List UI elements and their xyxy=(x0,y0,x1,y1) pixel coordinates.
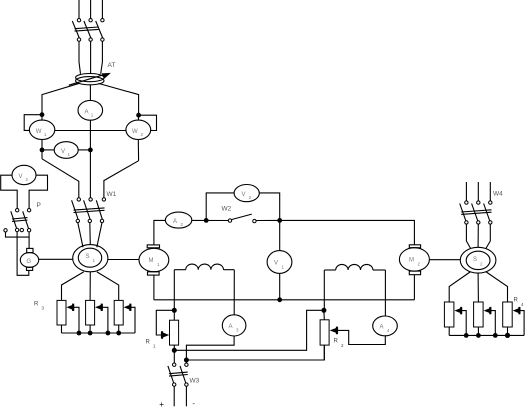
wire W1 to W2 horizontal xyxy=(55,130,126,132)
wire S1 to M1 shaft xyxy=(108,259,139,261)
wire M1 top to A2 xyxy=(154,220,166,245)
wire V3 branch left xyxy=(206,193,234,221)
svg-text:3: 3 xyxy=(249,195,252,200)
voltmeter V1 link xyxy=(267,220,292,299)
node W3 right xyxy=(184,358,189,363)
svg-text:R: R xyxy=(334,339,339,345)
node V1 on bus xyxy=(277,297,282,302)
rheostat R2 xyxy=(320,310,385,348)
svg-text:2: 2 xyxy=(341,343,344,348)
svg-text:S: S xyxy=(86,254,90,260)
inductor M2 field winding xyxy=(324,264,385,270)
wire W4 to S2 left xyxy=(466,224,470,249)
machine S2 slip-ring induction xyxy=(460,247,496,273)
svg-text:1: 1 xyxy=(44,132,47,137)
wire A3 bottom to W3 right xyxy=(186,336,234,360)
svg-text:W3: W3 xyxy=(190,378,200,385)
node R1 top xyxy=(172,308,177,313)
wire W3 left pole down xyxy=(173,386,175,406)
ammeter A4 xyxy=(373,316,398,336)
wire R1 node to R2 top xyxy=(174,310,321,350)
svg-text:1: 1 xyxy=(68,152,71,157)
svg-text:AT: AT xyxy=(108,62,116,69)
wire P right pole to G top xyxy=(28,232,30,249)
wire armature bus xyxy=(154,299,415,301)
wire W2 voltage bracket xyxy=(139,115,157,130)
wire M2 bottom to bus xyxy=(413,275,415,300)
wire V2 left to P left pole xyxy=(1,175,18,208)
wire W1 down xyxy=(41,140,43,159)
wire M2 to S2 shaft xyxy=(429,259,460,261)
voltmeter V2 xyxy=(12,165,36,184)
svg-text:3: 3 xyxy=(236,328,239,333)
wire switch W1 to S1 stator center xyxy=(89,223,92,245)
svg-text:P: P xyxy=(37,202,41,209)
rheostat R1 xyxy=(146,310,179,350)
wire supply stub C right xyxy=(489,182,491,201)
wire W4 to S2 center xyxy=(477,224,479,247)
switch W2 knife xyxy=(222,206,257,223)
switch W3 2-pole xyxy=(168,350,200,386)
wire S2 rotor center to R4 xyxy=(477,273,479,302)
wire field2 right to A4 xyxy=(384,270,386,316)
wire AT right tap xyxy=(99,83,139,113)
switch W1 3-pole xyxy=(72,191,117,223)
inductor M1 field winding xyxy=(174,264,234,270)
switch Q supply 3-pole xyxy=(72,19,104,42)
switch W4 3-pole xyxy=(460,191,503,225)
svg-text:W4: W4 xyxy=(493,191,503,198)
machine M2 DC xyxy=(399,245,429,275)
wire S2 rotor right to R4 xyxy=(486,272,507,302)
voltmeter V1 xyxy=(42,142,90,159)
wire W1 voltage bracket xyxy=(24,115,42,131)
wire W2 down xyxy=(137,140,139,161)
svg-text:V: V xyxy=(61,149,65,155)
wire phase A to autotransformer xyxy=(79,41,81,74)
svg-text:M: M xyxy=(409,258,414,264)
wire V3 branch right xyxy=(259,193,279,221)
node R2 top xyxy=(321,308,326,313)
svg-text:M: M xyxy=(149,258,154,264)
svg-text:1: 1 xyxy=(93,258,96,263)
wire supply phase C top xyxy=(101,0,103,19)
wire supply stub B right xyxy=(477,182,479,201)
switch P 2-pole xyxy=(11,202,41,232)
wire S2 rotor left to R4 xyxy=(449,272,470,302)
wire S1 rotor center to R3 xyxy=(89,272,91,301)
wire R2 bottom down xyxy=(323,345,325,360)
autotransformer AT xyxy=(69,62,116,85)
wire W2 to switch right pole xyxy=(104,161,139,198)
wire W2 switch to node xyxy=(256,219,280,221)
wire W4 to S2 right xyxy=(486,224,491,249)
wire field2 left to R2 top xyxy=(323,270,325,310)
ammeter A2 xyxy=(165,212,191,228)
svg-text:W: W xyxy=(36,129,42,135)
wire switch W1 to S1 stator right xyxy=(97,223,102,248)
svg-text:R: R xyxy=(34,302,39,308)
svg-text:V: V xyxy=(242,192,246,198)
svg-text:2: 2 xyxy=(480,262,483,267)
voltmeter V3 xyxy=(234,185,259,202)
svg-text:V: V xyxy=(19,174,23,180)
svg-text:V: V xyxy=(274,261,278,267)
rheostat R3 xyxy=(34,300,135,335)
wire field left to R1 node xyxy=(173,270,175,311)
wattmeter W2 xyxy=(126,115,151,139)
svg-text:A: A xyxy=(85,110,89,116)
svg-text:+: + xyxy=(159,400,164,409)
machine M1 DC xyxy=(139,245,169,275)
svg-text:2: 2 xyxy=(181,222,184,227)
wire W3 right node to R2 bottom xyxy=(186,345,324,360)
wire W1 to switch left pole xyxy=(42,159,79,198)
wire supply phase A top xyxy=(78,0,80,19)
wire phase B to autotransformer xyxy=(90,41,92,73)
svg-text:W1: W1 xyxy=(107,191,117,198)
wire S1 rotor right to R3 xyxy=(97,272,119,301)
svg-text:S: S xyxy=(473,257,477,263)
wire AT center tap xyxy=(89,85,91,101)
svg-text:A: A xyxy=(229,324,233,330)
wattmeter W1 xyxy=(29,115,54,140)
wire S1 rotor left to R3 xyxy=(62,272,84,301)
terminal stub left of P xyxy=(4,229,29,238)
svg-text:R: R xyxy=(514,298,519,304)
wire node to M2 top xyxy=(280,220,415,244)
wire A2 to W2 switch xyxy=(192,219,229,221)
svg-text:2: 2 xyxy=(26,177,29,182)
machine S1 slip-ring induction xyxy=(73,245,108,272)
svg-text:2: 2 xyxy=(418,262,421,267)
node V3 right xyxy=(277,218,282,223)
svg-text:G: G xyxy=(27,259,32,265)
svg-text:A: A xyxy=(380,325,384,331)
svg-text:3: 3 xyxy=(42,306,45,311)
wire G to S1 shaft xyxy=(39,258,73,260)
svg-text:W: W xyxy=(132,129,138,135)
ammeter A3 xyxy=(222,315,246,336)
node R1 bottom xyxy=(172,348,177,353)
wire P left pole to G bottom xyxy=(17,232,29,276)
wire M1 bottom to bus xyxy=(153,275,155,300)
svg-text:R: R xyxy=(146,340,151,346)
wire W3 right pole down xyxy=(185,386,187,406)
svg-text:1: 1 xyxy=(153,344,156,349)
wire supply phase B top xyxy=(90,0,92,19)
svg-text:1: 1 xyxy=(91,113,94,118)
node left wattmeter tap xyxy=(40,112,45,117)
svg-text:2: 2 xyxy=(141,132,144,137)
svg-text:1: 1 xyxy=(282,265,285,270)
wire supply stub A right xyxy=(465,182,467,201)
machine G exciter xyxy=(20,248,38,270)
wire A1 down center xyxy=(89,120,91,198)
svg-text:-: - xyxy=(193,401,196,408)
wire switch W1 to S1 stator left xyxy=(78,223,83,248)
ammeter A1 xyxy=(78,100,103,120)
wire V2 right to P right pole xyxy=(29,175,47,208)
wire field right to A3 xyxy=(233,270,235,315)
node V1 right xyxy=(88,148,93,153)
wire AT left tap xyxy=(42,83,79,113)
svg-text:4: 4 xyxy=(521,302,524,307)
svg-text:A: A xyxy=(173,219,177,225)
svg-text:1: 1 xyxy=(157,262,160,267)
svg-text:W2: W2 xyxy=(222,206,232,213)
node V1 left xyxy=(40,148,45,153)
node V3 left xyxy=(204,218,209,223)
rheostat R4 xyxy=(444,298,524,339)
node right wattmeter tap xyxy=(136,113,141,118)
wire phase C to autotransformer xyxy=(101,41,103,74)
svg-text:4: 4 xyxy=(387,328,390,333)
